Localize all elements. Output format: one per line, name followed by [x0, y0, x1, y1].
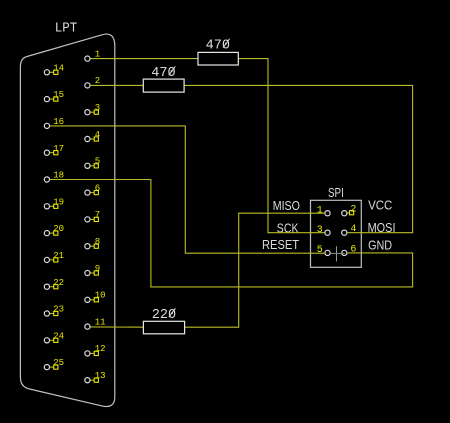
wire net SCK: LPT pin1 - R1 - SPI pin3: [90, 59, 324, 233]
svg-text:RESET: RESET: [262, 238, 299, 252]
resistor R1 470: [198, 37, 238, 65]
svg-text:2: 2: [350, 205, 356, 216]
pin 18: [44, 171, 64, 182]
pin 15: [44, 90, 64, 102]
svg-text:MISO: MISO: [273, 199, 301, 213]
wire net RESET: LPT pin16 - SPI pin5: [50, 126, 325, 253]
pin 6: [342, 244, 357, 255]
pin 17: [44, 144, 64, 155]
key mark between pins 5 and 6: [331, 246, 345, 261]
connector J2 SPI header: [311, 200, 362, 267]
pin 11: [85, 317, 106, 329]
resistor R2 470: [143, 65, 184, 92]
pin 5: [85, 157, 100, 169]
pin 16: [44, 117, 64, 129]
svg-text:3: 3: [317, 225, 323, 236]
svg-text:24: 24: [53, 331, 64, 341]
svg-text:12: 12: [95, 344, 106, 354]
pin 13: [85, 371, 106, 383]
svg-text:2: 2: [95, 76, 100, 86]
wire net MISO: LPT pin11 - R3 - SPI pin1: [90, 213, 324, 327]
svg-text:21: 21: [53, 251, 64, 261]
svg-text:3: 3: [95, 103, 100, 113]
svg-text:6: 6: [350, 244, 356, 255]
net label SCK: [277, 221, 299, 235]
svg-text:1: 1: [95, 49, 100, 59]
svg-text:15: 15: [53, 90, 64, 100]
svg-text:13: 13: [95, 371, 106, 381]
net label GND: [368, 239, 392, 253]
net label VCC: [368, 198, 392, 212]
label SPI: [328, 186, 344, 200]
pin 12: [85, 344, 106, 356]
svg-text:9: 9: [95, 264, 100, 274]
svg-text:5: 5: [95, 157, 100, 167]
svg-text:14: 14: [53, 63, 64, 73]
pin 2: [85, 76, 100, 88]
svg-text:5: 5: [317, 245, 323, 256]
pin 8: [85, 237, 100, 249]
pin 1: [317, 206, 330, 217]
resistor R3 220: [143, 307, 184, 334]
svg-text:GND: GND: [368, 239, 392, 253]
svg-text:10: 10: [95, 291, 106, 301]
pin 14: [44, 63, 64, 75]
pin 3: [317, 225, 330, 236]
svg-text:20: 20: [53, 224, 64, 234]
svg-text:19: 19: [53, 197, 64, 207]
pin 25: [44, 358, 64, 370]
pin 23: [44, 305, 64, 317]
pin 9: [85, 264, 100, 276]
svg-text:23: 23: [53, 305, 64, 315]
pin 10: [85, 291, 106, 303]
pin 6: [85, 183, 100, 195]
label LPT: [55, 22, 78, 37]
pin 3: [85, 103, 100, 115]
svg-text:470: 470: [151, 65, 175, 81]
svg-text:1: 1: [317, 206, 323, 217]
svg-text:4: 4: [95, 130, 100, 140]
pin 20: [44, 224, 64, 236]
net label MISO: [273, 199, 301, 213]
svg-text:4: 4: [350, 224, 356, 235]
pin 19: [44, 197, 64, 209]
svg-text:LPT: LPT: [55, 22, 78, 37]
pin 4: [342, 224, 357, 235]
svg-text:11: 11: [95, 317, 106, 327]
pin 22: [44, 278, 64, 290]
svg-text:22: 22: [53, 278, 64, 288]
pin 1: [85, 49, 100, 61]
wire net MOSI: LPT pin2 - R2 - SPI pin4: [90, 85, 412, 232]
pin 7: [85, 210, 100, 222]
svg-text:25: 25: [53, 358, 64, 368]
svg-text:7: 7: [95, 210, 100, 220]
svg-text:17: 17: [53, 144, 64, 154]
svg-text:8: 8: [95, 237, 100, 247]
pin 2: [342, 205, 357, 216]
pin 5: [317, 245, 330, 256]
svg-text:VCC: VCC: [368, 198, 392, 212]
svg-text:470: 470: [206, 37, 230, 53]
pin 24: [44, 331, 64, 343]
pin 21: [44, 251, 64, 263]
pin 4: [85, 130, 100, 142]
svg-text:220: 220: [152, 307, 176, 323]
net label RESET: [262, 238, 299, 252]
net label MOSI: [368, 221, 396, 235]
connector J1 LPT (DB25): [20, 34, 114, 406]
svg-text:SPI: SPI: [328, 186, 344, 200]
wire net GND: LPT pin18 - SPI pin6: [50, 180, 413, 287]
svg-text:6: 6: [95, 183, 100, 193]
